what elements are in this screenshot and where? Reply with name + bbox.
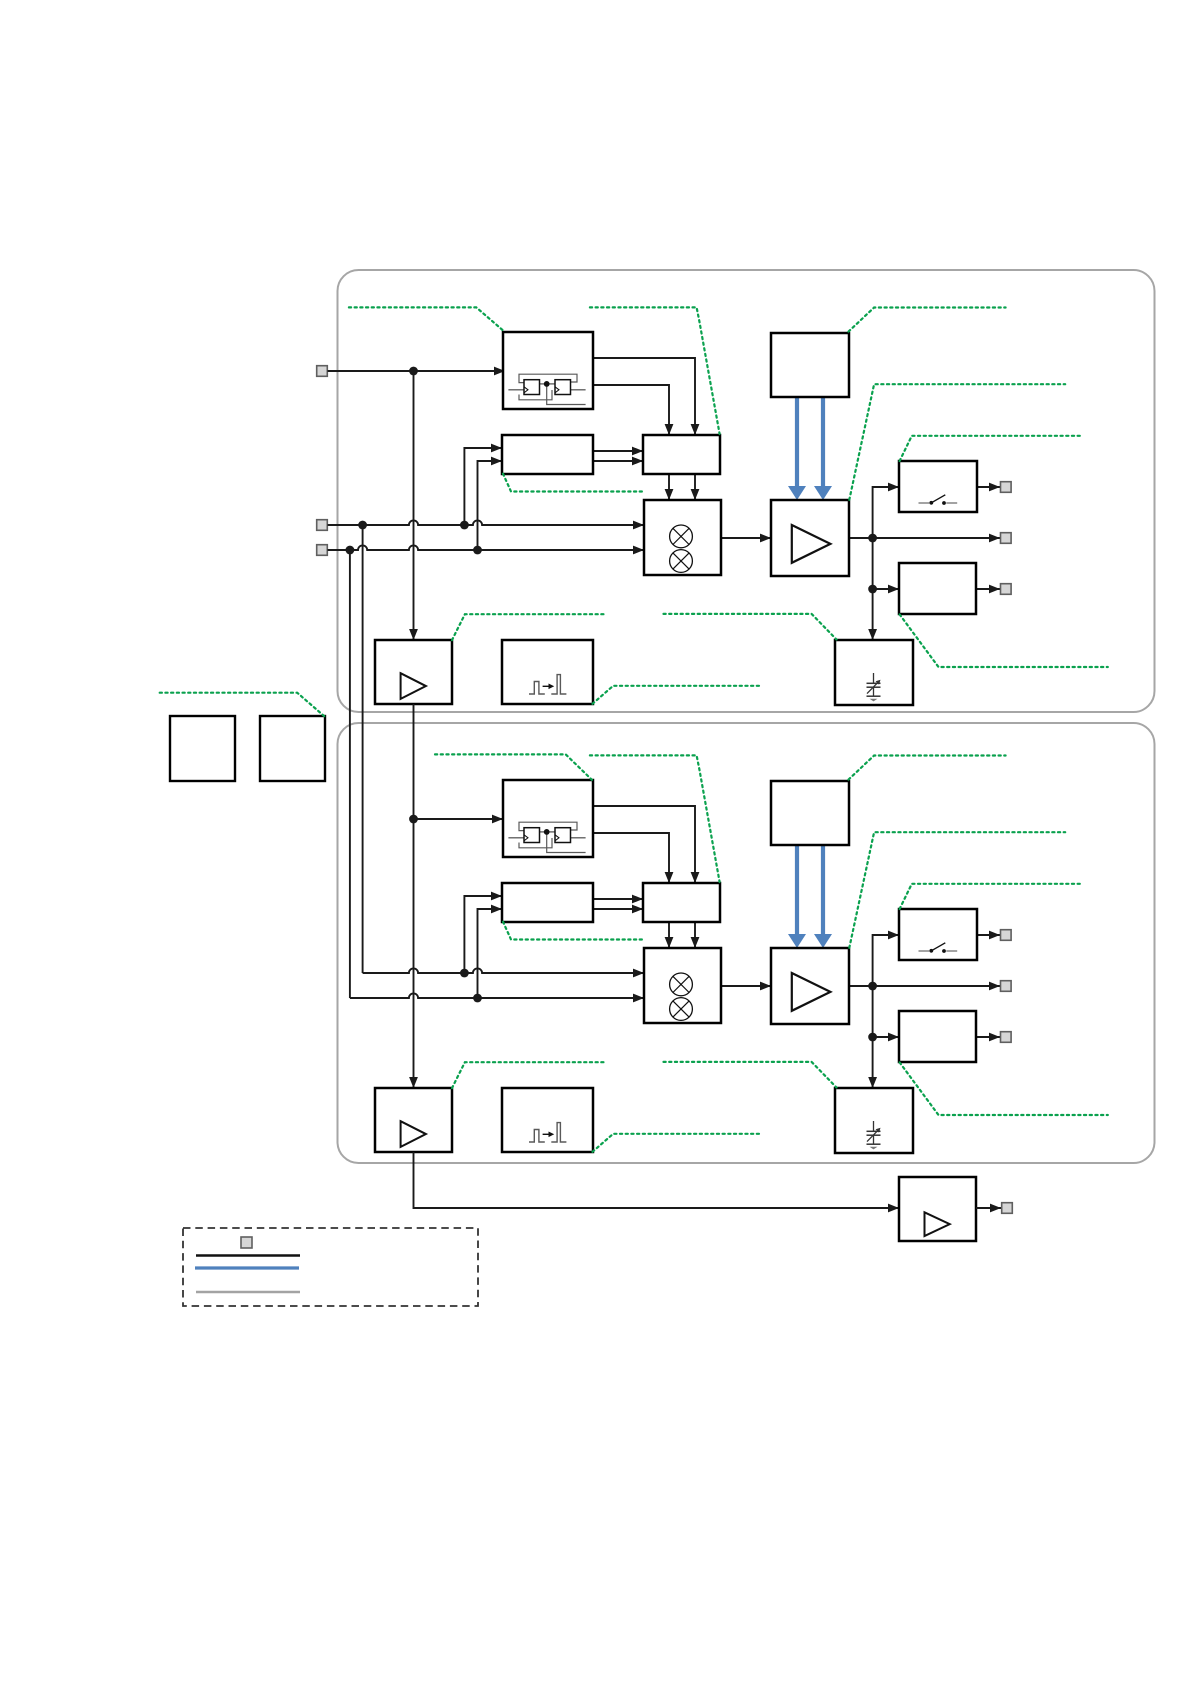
blue arrow: gain control 1 (CH2) bbox=[795, 845, 799, 935]
wire: divider output 1 down to LO interface (CH1) bbox=[593, 358, 695, 435]
node: RF output junction upper (CH1) bbox=[868, 534, 877, 543]
callout leader: divider label (CH1) bbox=[349, 307, 504, 331]
wire: branch up to detector block (CH1) bbox=[873, 487, 899, 538]
wire: LO buffer CH2 output down and right to final amplifier bbox=[414, 1152, 900, 1208]
callout leader: pulse shaper label (CH2) bbox=[593, 1134, 763, 1152]
legend: black signal line sample bbox=[196, 1254, 300, 1256]
wire: LO interface to mixer line 1 (CH2) bbox=[668, 922, 670, 948]
block: pulse shaper (CH2) bbox=[502, 1088, 593, 1152]
block: IQ mixer (CH2) bbox=[644, 948, 721, 1023]
wire: RF amplifier output to RF port (CH2) bbox=[849, 985, 1000, 987]
callout leader: coupler label (CH2) bbox=[900, 1062, 1108, 1115]
wire: REF drop to LO buffer amp (CH1) bbox=[413, 371, 415, 640]
wire: Q input line to mixer (CH1) bbox=[328, 545, 645, 550]
node: REF tap junction (CH1) bbox=[409, 367, 418, 376]
wire: divider output 2 down to LO interface (CH1) bbox=[593, 385, 669, 435]
port: coupler output (CH2) bbox=[1001, 1032, 1012, 1043]
wire: detector output to port (CH2) bbox=[977, 934, 1001, 936]
node: REF tap junction (CH2) bbox=[409, 815, 418, 824]
icon: amplifier triangle (CH1) bbox=[792, 525, 831, 563]
blue arrow: gain control 1 (CH1) bbox=[795, 397, 799, 487]
port: RF output (CH1) bbox=[1001, 533, 1012, 544]
wire: divider output 1 down to LO interface (CH2) bbox=[593, 806, 695, 883]
callout leader: LO buffer label (CH2) bbox=[452, 1062, 604, 1088]
wire: LO interface to mixer line 2 (CH1) bbox=[694, 474, 696, 500]
node: RF output junction lower (CH2) bbox=[868, 1033, 877, 1042]
blue arrow: gain control 2 (CH1) bbox=[821, 397, 825, 487]
block: output switch detector (CH1) bbox=[899, 461, 977, 512]
node: RF output junction lower (CH1) bbox=[868, 585, 877, 594]
wire: RF amplifier output to RF port (CH1) bbox=[849, 537, 1000, 539]
callout leader: gain control label (CH1) bbox=[849, 308, 1006, 332]
node: RF output junction upper (CH2) bbox=[868, 982, 877, 991]
callout leader: phase shifter label (CH2) bbox=[503, 922, 644, 940]
icon: final amplifier triangle bbox=[925, 1212, 950, 1236]
callout leader: detector label (CH1) bbox=[900, 436, 1080, 461]
block: RF amplifier (CH1) bbox=[771, 500, 849, 576]
callout leader: phase shifter label (CH1) bbox=[503, 474, 644, 492]
wire: riser Q to phase shifter (CH2) bbox=[478, 909, 503, 998]
callout leader: RF amplifier label (CH2) bbox=[849, 832, 1065, 948]
wire: coupler output to port (CH1) bbox=[976, 588, 1000, 590]
wire: mixer output to RF amplifier (CH2) bbox=[721, 985, 771, 987]
wire: REF input to divider (CH1) bbox=[328, 370, 506, 372]
icon: dual flip-flop divider (CH1) bbox=[519, 374, 577, 382]
port: detector output (CH2) bbox=[1001, 930, 1012, 941]
block: control register B (standalone left square 2) bbox=[260, 716, 325, 781]
wire: coupler input branch (CH1) bbox=[873, 588, 899, 590]
block: LO buffer amplifier (CH2) bbox=[375, 1088, 452, 1152]
block: pulse shaper (CH1) bbox=[502, 640, 593, 704]
node: I line junction to phase shifter riser bbox=[460, 521, 469, 530]
panel: channel 1 enclosure bbox=[338, 270, 1155, 712]
block: phase shifter (CH1) bbox=[502, 435, 593, 474]
callout leader: RF amplifier label (CH1) bbox=[849, 384, 1065, 500]
callout leader: tuning capacitor label (CH1) bbox=[664, 614, 837, 640]
callout leader: tuning capacitor label (CH2) bbox=[664, 1062, 837, 1088]
icon: mixer cross circles (CH2) bbox=[670, 973, 693, 996]
icon: amplifier triangle (CH2) bbox=[792, 973, 831, 1011]
icon: buffer amp triangle (CH2) bbox=[401, 1121, 426, 1147]
icon: dual flip-flop divider (CH2) bbox=[519, 822, 577, 830]
legend: gray line sample bbox=[196, 1291, 300, 1293]
wire: I input line to mixer (CH1) bbox=[328, 520, 645, 525]
node: I line junction to phase shifter riser (CH2) bbox=[460, 969, 469, 978]
wire: phase shifter output 1 to LO interface (CH2) bbox=[593, 898, 643, 900]
port: clock output bbox=[1002, 1203, 1013, 1214]
port: detector output (CH1) bbox=[1001, 482, 1012, 493]
block: clock divider with dual flip-flop icon (CH1) bbox=[503, 332, 593, 409]
block: output switch detector (CH2) bbox=[899, 909, 977, 960]
block: control register A (standalone left square 1) bbox=[170, 716, 235, 781]
block: RF amplifier (CH2) bbox=[771, 948, 849, 1024]
callout leader: gain control label (CH2) bbox=[849, 756, 1006, 780]
port: RF output (CH2) bbox=[1001, 981, 1012, 992]
callout leader: LO interface label (CH1) bbox=[590, 307, 720, 434]
wire: LO interface to mixer line 1 (CH1) bbox=[668, 474, 670, 500]
wire: drop to tuning capacitor block (CH2) bbox=[872, 1037, 874, 1088]
callout leader: detector label (CH2) bbox=[900, 884, 1080, 909]
port: coupler output (CH1) bbox=[1001, 584, 1012, 595]
wire: coupler output to port (CH2) bbox=[976, 1036, 1000, 1038]
wire: coupler input branch (CH2) bbox=[873, 1036, 899, 1038]
wire: divider output 2 down to LO interface (CH2) bbox=[593, 833, 669, 883]
icon: mixer cross circles (CH1) bbox=[670, 525, 693, 548]
node: Q line junction to phase shifter riser bbox=[473, 546, 482, 555]
callout leader: divider label (CH2) bbox=[435, 754, 592, 779]
blue arrow: gain control 2 (CH2) bbox=[821, 845, 825, 935]
wire: branch down to coupler block (CH1) bbox=[872, 538, 874, 589]
wire: phase shifter output 2 to LO interface (CH2) bbox=[593, 908, 643, 910]
callout leader to left squares bbox=[160, 693, 325, 717]
wire: REF line through CH2 (junction to divider) bbox=[413, 704, 415, 1088]
block: final output amplifier bbox=[899, 1177, 976, 1241]
wire: phase shifter output 2 to LO interface (CH1) bbox=[593, 460, 643, 462]
block: LO buffer amplifier (CH1) bbox=[375, 640, 452, 704]
node: Q line junction to CH2 (x=349.9) bbox=[346, 546, 355, 555]
block: gain control source (CH2) bbox=[771, 781, 849, 845]
wire: riser I to phase shifter (CH1) bbox=[464, 448, 502, 525]
wire: Q line drop to channel 2 bbox=[349, 550, 351, 998]
block: gain control source (CH1) bbox=[771, 333, 849, 397]
callout leader: LO buffer label (CH1) bbox=[452, 614, 604, 640]
icon: pulse waveform (CH1) bbox=[529, 682, 545, 695]
port: REF clock input (CH1) bbox=[317, 366, 328, 377]
legend: dashed box bbox=[183, 1228, 478, 1306]
block: tuning capacitor (CH1) bbox=[835, 640, 913, 705]
icon: variable capacitor to ground (CH1) bbox=[873, 673, 875, 683]
block: clock divider with dual flip-flop icon (CH2) bbox=[503, 780, 593, 857]
wire: I line drop to channel 2 bbox=[362, 525, 364, 973]
wire: phase shifter output 1 to LO interface (CH1) bbox=[593, 450, 643, 452]
icon: variable capacitor to ground (CH2) bbox=[873, 1121, 875, 1131]
callout leader: LO interface label (CH2) bbox=[590, 755, 720, 882]
port: I data input (CH1) bbox=[317, 520, 328, 531]
wire: detector output to port (CH1) bbox=[977, 486, 1001, 488]
node: Q line junction to phase shifter riser (CH2) bbox=[473, 994, 482, 1003]
port: Q data input (CH1) bbox=[317, 545, 328, 556]
wire: riser I to phase shifter (CH2) bbox=[464, 896, 502, 973]
block: phase shifter (CH2) bbox=[502, 883, 593, 922]
node: I line junction to CH2 (x=362.6) bbox=[358, 521, 367, 530]
wire: mixer output to RF amplifier (CH1) bbox=[721, 537, 771, 539]
panel: channel 2 enclosure bbox=[338, 723, 1155, 1163]
callout leader: pulse shaper label (CH1) bbox=[593, 686, 763, 704]
wire: LO interface to mixer line 2 (CH2) bbox=[694, 922, 696, 948]
icon: switch (CH1) bbox=[919, 502, 930, 504]
wire: branch up to detector block (CH2) bbox=[873, 935, 899, 986]
icon: switch (CH2) bbox=[919, 950, 930, 952]
legend: port sample square bbox=[241, 1237, 252, 1248]
wire: riser Q to phase shifter (CH1) bbox=[478, 461, 503, 550]
wire: Q line into CH2 mixer bbox=[350, 993, 644, 998]
callout leader: coupler label (CH1) bbox=[900, 614, 1108, 667]
wire: final amplifier output to clock output port bbox=[976, 1207, 1001, 1209]
block: output coupler (CH1) bbox=[899, 563, 976, 614]
block: output coupler (CH2) bbox=[899, 1011, 976, 1062]
block: LO interface (CH1) bbox=[643, 435, 720, 474]
icon: pulse waveform (CH2) bbox=[529, 1130, 545, 1143]
wire: branch down to coupler block (CH2) bbox=[872, 986, 874, 1037]
block: LO interface (CH2) bbox=[643, 883, 720, 922]
icon: buffer amp triangle (CH1) bbox=[401, 673, 426, 699]
block: tuning capacitor (CH2) bbox=[835, 1088, 913, 1153]
wire: drop to tuning capacitor block (CH1) bbox=[872, 589, 874, 640]
legend: blue control line sample bbox=[195, 1266, 299, 1269]
wire: I line into CH2 mixer bbox=[363, 968, 644, 973]
wire: REF tap to divider (CH2) bbox=[414, 818, 504, 820]
block: IQ mixer (CH1) bbox=[644, 500, 721, 575]
